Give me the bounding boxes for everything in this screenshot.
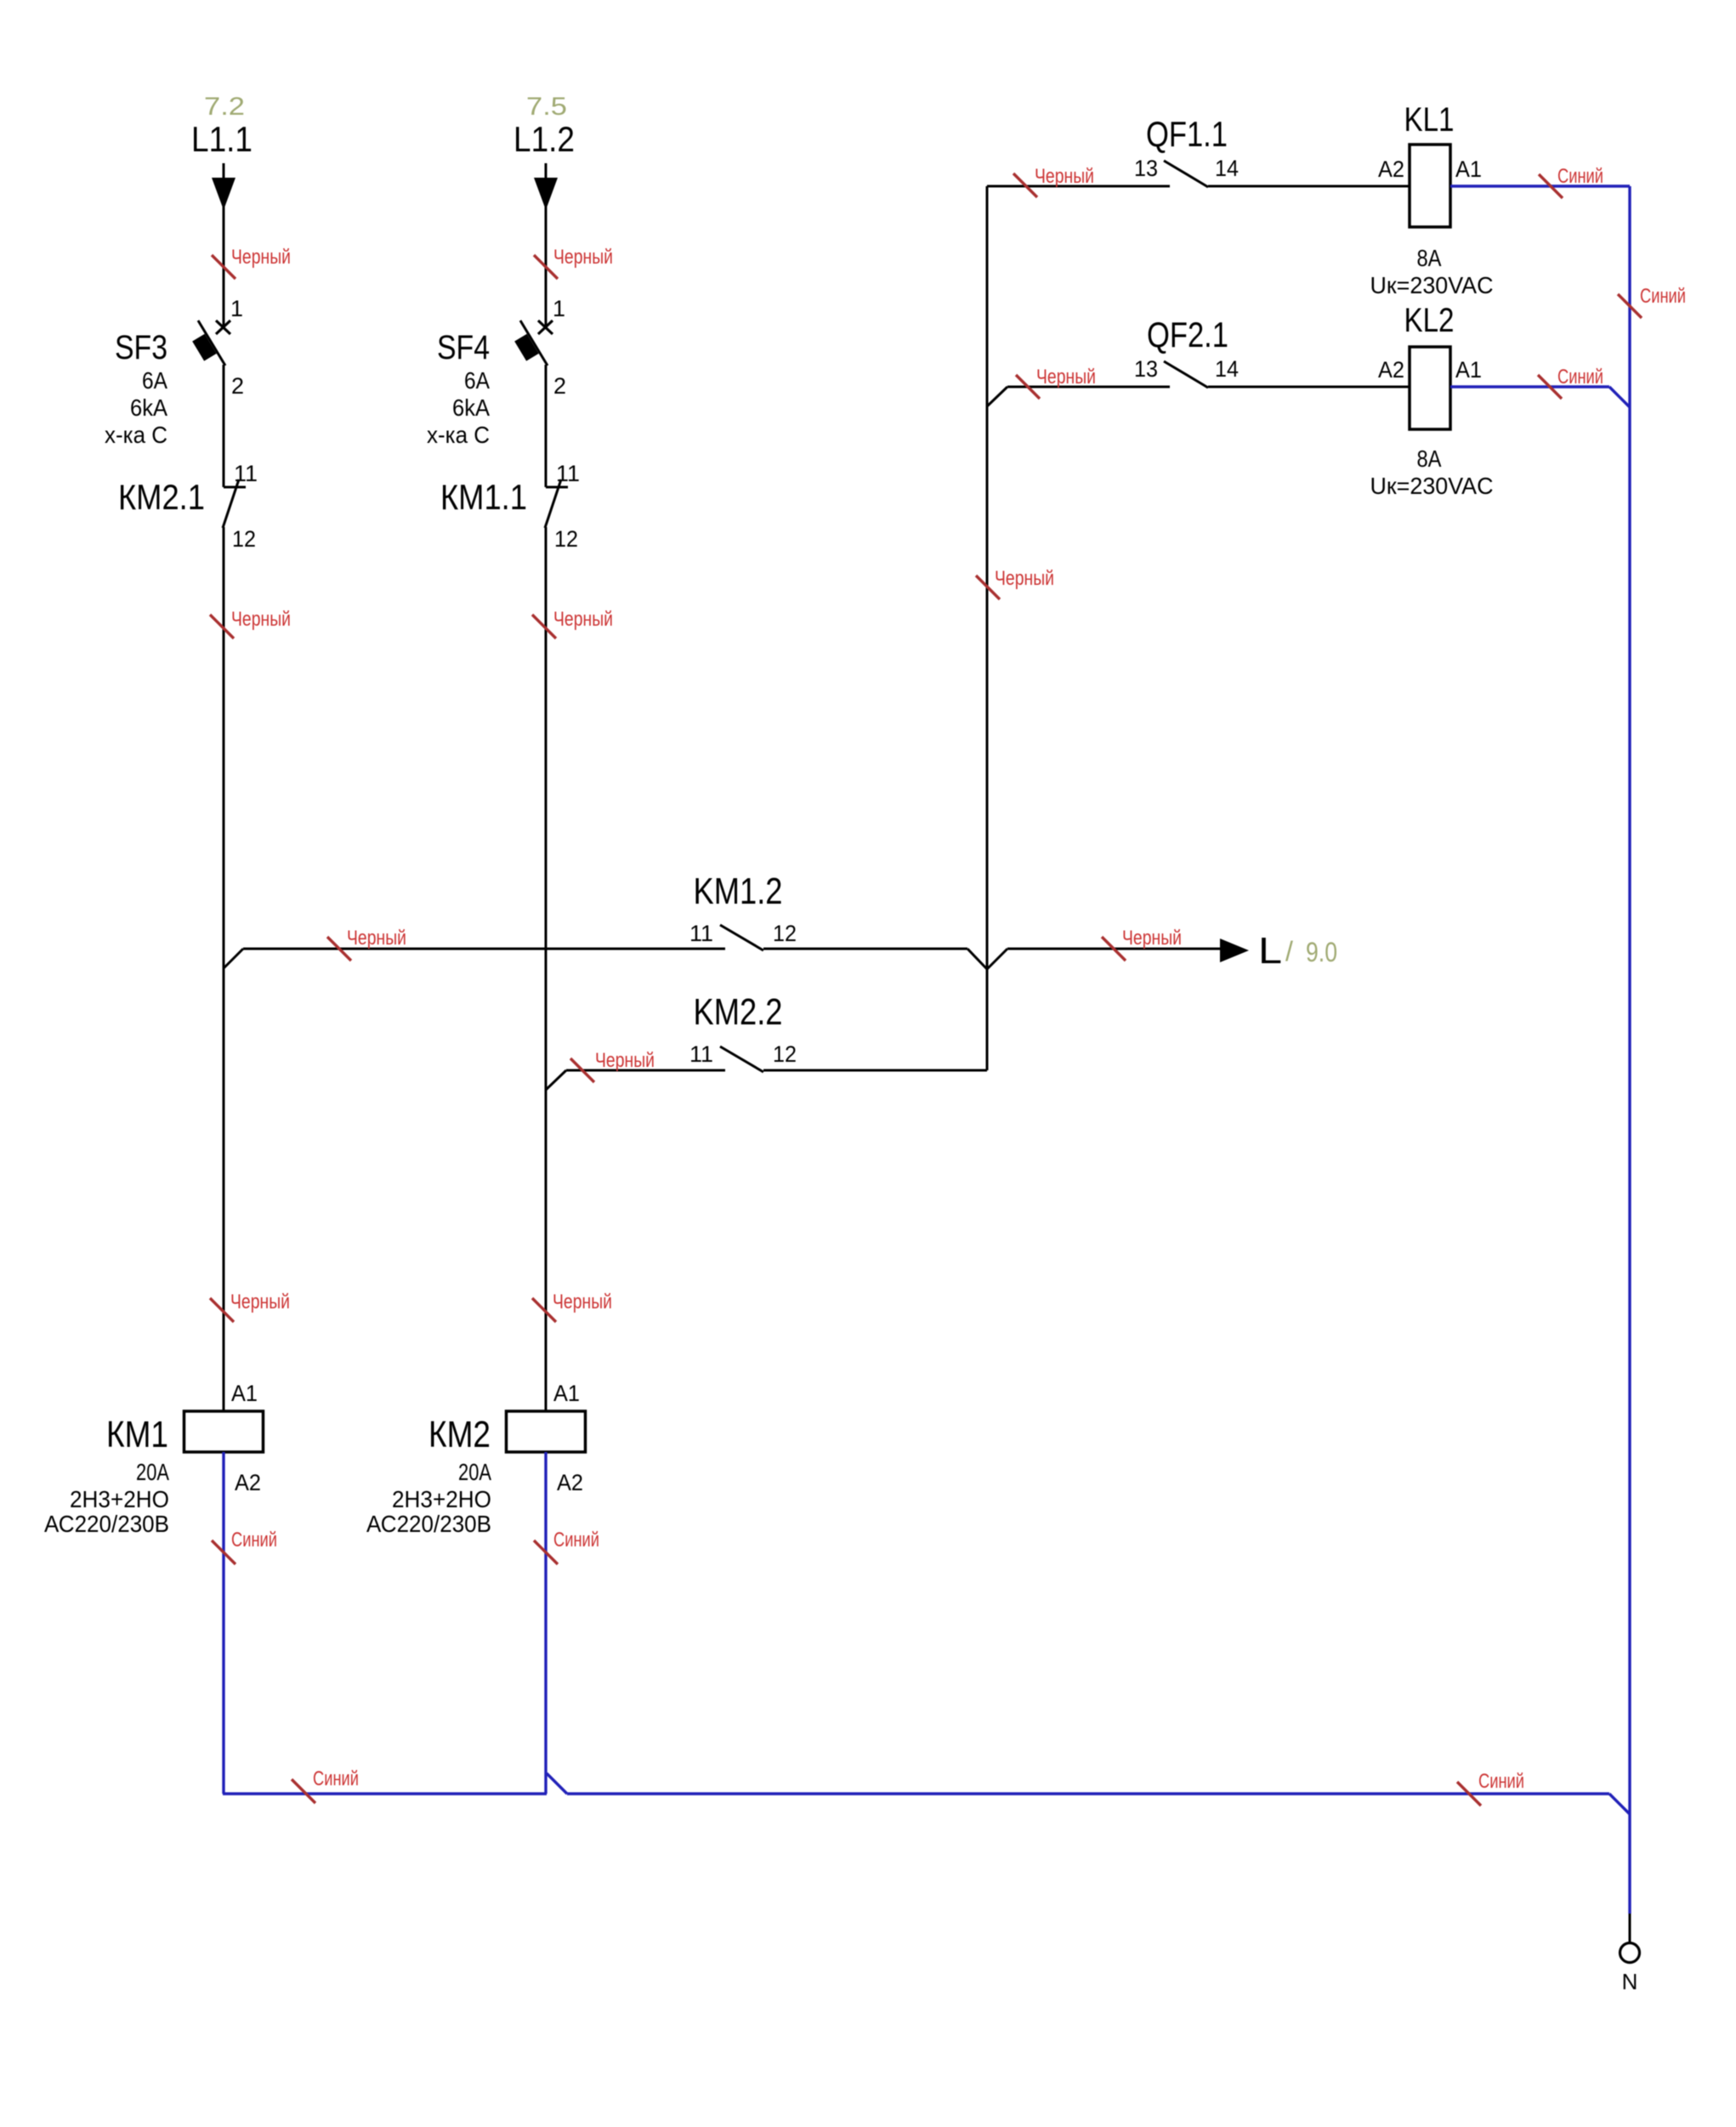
svg-text:6A: 6A (142, 367, 167, 394)
svg-text:12: 12 (232, 526, 256, 552)
svg-text:АС220/230В: АС220/230В (366, 1511, 491, 1537)
svg-text:Черный: Черный (553, 246, 613, 269)
svg-text:/: / (1285, 936, 1293, 967)
svg-text:11: 11 (689, 921, 713, 946)
svg-text:КМ1: КМ1 (106, 1414, 168, 1455)
svg-text:KM1.2: KM1.2 (694, 871, 783, 912)
svg-text:х-ка С: х-ка С (427, 422, 490, 448)
svg-text:Черный: Черный (553, 1290, 612, 1313)
svg-text:Черный: Черный (595, 1049, 655, 1072)
svg-text:SF3: SF3 (115, 329, 167, 366)
svg-text:Черный: Черный (553, 608, 613, 631)
svg-text:Черный: Черный (231, 246, 291, 269)
svg-text:Синий: Синий (231, 1529, 277, 1551)
svg-text:L1.2: L1.2 (513, 119, 575, 159)
svg-text:QF1.1: QF1.1 (1146, 114, 1228, 154)
svg-text:Черный: Черный (1035, 165, 1094, 188)
svg-text:Uк=230VAC: Uк=230VAC (1370, 473, 1494, 499)
svg-text:SF4: SF4 (437, 329, 490, 366)
svg-text:A1: A1 (1455, 156, 1482, 182)
svg-text:L: L (1258, 930, 1282, 972)
svg-text:8A: 8A (1417, 445, 1442, 472)
svg-text:QF2.1: QF2.1 (1147, 315, 1228, 354)
svg-text:Uк=230VAC: Uк=230VAC (1370, 272, 1494, 298)
svg-text:Черный: Черный (1036, 366, 1096, 389)
svg-text:20A: 20A (136, 1459, 169, 1485)
svg-text:Черный: Черный (347, 927, 406, 950)
svg-text:КМ2.1: КМ2.1 (118, 477, 205, 517)
svg-text:2Н3+2НО: 2Н3+2НО (70, 1486, 169, 1512)
svg-text:9.0: 9.0 (1306, 937, 1337, 967)
svg-text:Синий: Синий (1478, 1770, 1524, 1793)
svg-text:13: 13 (1134, 356, 1158, 382)
svg-text:A2: A2 (235, 1470, 261, 1495)
svg-text:14: 14 (1215, 356, 1239, 382)
svg-text:A1: A1 (1455, 357, 1482, 383)
svg-text:1: 1 (230, 296, 243, 321)
svg-text:KM2.2: KM2.2 (694, 991, 783, 1033)
svg-text:8A: 8A (1417, 245, 1442, 271)
svg-text:A2: A2 (1378, 357, 1404, 383)
svg-text:7.5: 7.5 (526, 93, 567, 121)
svg-text:1: 1 (553, 296, 565, 321)
svg-text:20A: 20A (458, 1459, 491, 1485)
svg-text:Синий: Синий (1557, 165, 1603, 188)
svg-text:Синий: Синий (1557, 366, 1603, 389)
svg-text:7.2: 7.2 (204, 93, 245, 121)
svg-text:11: 11 (234, 461, 258, 486)
svg-text:A2: A2 (557, 1470, 583, 1495)
svg-text:12: 12 (773, 921, 797, 946)
svg-text:Синий: Синий (313, 1767, 359, 1790)
svg-text:11: 11 (556, 461, 580, 486)
svg-text:КМ1.1: КМ1.1 (440, 477, 527, 517)
svg-text:12: 12 (554, 526, 578, 552)
svg-text:2: 2 (553, 373, 566, 399)
svg-text:Синий: Синий (1640, 285, 1686, 308)
svg-text:КМ2: КМ2 (428, 1414, 491, 1455)
svg-text:6kA: 6kA (452, 394, 490, 421)
svg-text:6A: 6A (464, 367, 490, 394)
svg-text:A1: A1 (553, 1381, 580, 1406)
svg-text:х-ка С: х-ка С (105, 422, 167, 448)
svg-text:Черный: Черный (231, 608, 291, 631)
svg-text:Синий: Синий (553, 1529, 599, 1551)
svg-text:L1.1: L1.1 (191, 119, 252, 159)
svg-text:KL1: KL1 (1404, 101, 1455, 139)
svg-text:Черный: Черный (995, 567, 1054, 590)
svg-text:KL2: KL2 (1404, 302, 1455, 339)
svg-text:A1: A1 (231, 1381, 258, 1406)
svg-text:12: 12 (773, 1041, 797, 1067)
svg-text:6kA: 6kA (130, 394, 167, 421)
svg-text:2Н3+2НО: 2Н3+2НО (392, 1486, 491, 1512)
svg-text:11: 11 (689, 1041, 713, 1067)
svg-text:АС220/230В: АС220/230В (44, 1511, 169, 1537)
svg-text:13: 13 (1134, 156, 1158, 181)
svg-text:N: N (1622, 1969, 1638, 1994)
svg-text:2: 2 (231, 373, 244, 399)
svg-text:A2: A2 (1378, 156, 1404, 182)
svg-text:Черный: Черный (230, 1290, 290, 1313)
svg-text:Черный: Черный (1122, 927, 1182, 950)
svg-text:14: 14 (1215, 156, 1239, 181)
